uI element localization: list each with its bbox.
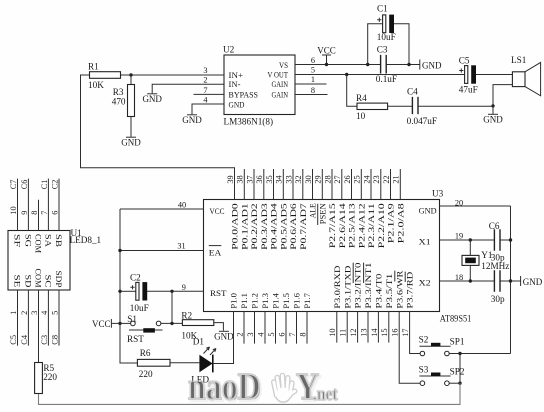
svg-text:P3.6/WR: P3.6/WR bbox=[394, 270, 404, 308]
svg-text:U3: U3 bbox=[432, 188, 444, 198]
wire U2 BYPASS stub (pin7) bbox=[194, 93, 225, 95]
svg-text:VCC: VCC bbox=[317, 46, 336, 56]
wire C2 to U3 pin9 RST bbox=[147, 290, 204, 292]
svg-text:SD: SD bbox=[23, 275, 33, 288]
svg-text:P1.0: P1.0 bbox=[229, 293, 239, 309]
svg-text:15: 15 bbox=[380, 329, 389, 337]
wire C5 to speaker bbox=[476, 74, 512, 76]
wire U3 pin17 to S2 bbox=[410, 312, 421, 354]
svg-text:GND: GND bbox=[142, 94, 162, 104]
svg-text:P2.6/A14: P2.6/A14 bbox=[337, 202, 347, 248]
node C1 right junction bbox=[407, 63, 410, 66]
svg-text:SC: SC bbox=[43, 275, 53, 288]
svg-text:9: 9 bbox=[182, 283, 186, 292]
svg-text:32: 32 bbox=[294, 175, 303, 183]
op-amp U2 LM386 box bbox=[224, 55, 295, 115]
svg-text:P1.2: P1.2 bbox=[250, 293, 260, 309]
wire R2 to ground bbox=[214, 323, 224, 331]
svg-text:C1: C1 bbox=[40, 180, 49, 190]
svg-text:GND: GND bbox=[182, 115, 202, 125]
wire U3 top pin 24 bbox=[370, 169, 372, 200]
svg-text:COM: COM bbox=[33, 234, 43, 253]
wire: input net from R1 left down and across to U3 pin39 bbox=[81, 75, 235, 200]
svg-text:RST: RST bbox=[127, 334, 144, 344]
svg-text:34: 34 bbox=[275, 174, 284, 183]
svg-text:SB: SB bbox=[54, 234, 64, 247]
wire U3 pin19 X1 bbox=[440, 239, 495, 241]
ground flag at X2 bbox=[521, 276, 543, 287]
svg-text:SDP: SDP bbox=[54, 271, 64, 288]
wire U1 bottom pin 3 (COM) to R5 bbox=[38, 290, 40, 363]
svg-text:1: 1 bbox=[9, 311, 18, 315]
svg-text:2: 2 bbox=[203, 76, 207, 85]
capacitor C1 plates bbox=[377, 15, 394, 33]
svg-text:26: 26 bbox=[343, 175, 352, 183]
svg-text:V OUT: V OUT bbox=[268, 70, 289, 80]
svg-text:C8: C8 bbox=[50, 335, 59, 345]
svg-text:C5: C5 bbox=[459, 55, 470, 65]
svg-text:P3.3/INT1: P3.3/INT1 bbox=[363, 263, 373, 309]
wire U3 top pin 34 bbox=[282, 169, 284, 200]
svg-text:VS: VS bbox=[279, 60, 288, 70]
svg-text:LED8_1: LED8_1 bbox=[70, 235, 102, 245]
svg-text:SA: SA bbox=[43, 234, 53, 248]
svg-text:GND: GND bbox=[422, 61, 442, 71]
svg-text:P3.1/TXD: P3.1/TXD bbox=[342, 266, 352, 309]
power VCC flag at S1 bbox=[92, 319, 120, 329]
S3 left terminal bbox=[420, 381, 425, 386]
svg-text:C7: C7 bbox=[9, 180, 18, 190]
svg-text:17: 17 bbox=[401, 329, 410, 337]
svg-text:10K: 10K bbox=[88, 80, 104, 90]
svg-text:P3.2/INT0: P3.2/INT0 bbox=[353, 263, 363, 309]
svg-text:BYPASS: BYPASS bbox=[229, 90, 259, 100]
resistor R2 body bbox=[182, 320, 213, 326]
svg-text:7: 7 bbox=[203, 86, 207, 95]
svg-text:23: 23 bbox=[372, 175, 381, 183]
svg-text:3: 3 bbox=[246, 332, 255, 336]
svg-text:3: 3 bbox=[30, 311, 39, 315]
microcontroller U3 AT89S51 box bbox=[204, 200, 440, 312]
node speaker/C4 ground junction bbox=[491, 104, 494, 107]
wire U3 top pin 30 bbox=[312, 169, 314, 200]
svg-text:R6: R6 bbox=[140, 348, 151, 358]
ground at U2 pin4 bbox=[182, 115, 202, 125]
node SP1 bbox=[458, 352, 461, 355]
svg-text:24: 24 bbox=[362, 174, 371, 183]
node VCC tap on VS rail bbox=[325, 63, 328, 66]
svg-text:38: 38 bbox=[236, 175, 245, 183]
wire V OUT down to R4 bbox=[347, 75, 357, 107]
wire R6 to LED bbox=[170, 362, 199, 364]
svg-text:P0.1/AD1: P0.1/AD1 bbox=[239, 203, 249, 250]
svg-text:P0.3/AD3: P0.3/AD3 bbox=[259, 203, 269, 250]
svg-text:P3.4/T0: P3.4/T0 bbox=[374, 274, 384, 309]
wire U3 bottom pin 11 bbox=[346, 312, 348, 343]
svg-text:P1.7: P1.7 bbox=[302, 292, 312, 308]
svg-text:470: 470 bbox=[112, 96, 126, 106]
node S1/R2 junction bbox=[170, 322, 173, 325]
svg-text:5: 5 bbox=[50, 311, 59, 315]
svg-text:19: 19 bbox=[455, 232, 463, 241]
svg-text:30p: 30p bbox=[491, 294, 505, 304]
wire U3 bottom pin 10 bbox=[336, 312, 338, 343]
svg-text:C6: C6 bbox=[489, 221, 500, 231]
svg-text:9: 9 bbox=[20, 211, 29, 215]
ground below R3 bbox=[121, 137, 141, 147]
wire LED cathode to U3 pin1 bbox=[213, 312, 234, 364]
svg-text:8: 8 bbox=[30, 211, 39, 215]
svg-text:P2.4/A12: P2.4/A12 bbox=[356, 203, 366, 248]
svg-text:30: 30 bbox=[304, 175, 313, 183]
svg-text:GND: GND bbox=[483, 115, 503, 125]
svg-text:22: 22 bbox=[382, 175, 391, 183]
svg-text:C4: C4 bbox=[20, 334, 29, 345]
svg-text:12: 12 bbox=[349, 329, 358, 337]
svg-text:14: 14 bbox=[370, 328, 379, 337]
svg-text:18: 18 bbox=[455, 273, 463, 282]
svg-text:P3.0/RXD: P3.0/RXD bbox=[332, 266, 342, 309]
svg-text:SP2: SP2 bbox=[450, 367, 465, 377]
svg-text:P2.7/A15: P2.7/A15 bbox=[327, 203, 337, 248]
svg-text:6: 6 bbox=[311, 56, 315, 65]
svg-text:220: 220 bbox=[43, 372, 57, 382]
wire U3 bottom pin 6 bbox=[285, 312, 287, 344]
S2 left terminal bbox=[420, 351, 425, 356]
svg-text:R4: R4 bbox=[356, 93, 367, 103]
wire U1 top pin 9 net C6 bbox=[27, 179, 29, 231]
svg-text:GAIN: GAIN bbox=[272, 79, 289, 89]
wire U3 bottom pin 8 bbox=[306, 312, 308, 344]
resistor R6 body bbox=[137, 359, 170, 366]
svg-text:5: 5 bbox=[267, 332, 276, 336]
svg-text:RST: RST bbox=[210, 288, 227, 298]
svg-text:R1: R1 bbox=[88, 62, 99, 72]
node junction R1/R3 bbox=[129, 73, 132, 76]
wire U3 pin18 X2 bbox=[440, 280, 495, 282]
svg-text:47uF: 47uF bbox=[459, 84, 478, 94]
wire to ground bbox=[492, 106, 494, 114]
node X2 crystal junction bbox=[469, 279, 472, 282]
wire U3 top pin 35 bbox=[273, 169, 275, 200]
wire X1 to crystal bbox=[469, 240, 471, 255]
wire C3 right to ground flag bbox=[386, 64, 420, 66]
node VCC rail at S1 bbox=[118, 322, 121, 325]
wire U1 top pin 8 (COM) bbox=[38, 200, 40, 231]
wire U1 top pin 7 net C1 bbox=[47, 179, 49, 231]
svg-text:21: 21 bbox=[392, 175, 401, 183]
svg-text:1: 1 bbox=[311, 75, 315, 84]
wire bottom return from SP2 to R5 bbox=[39, 383, 461, 404]
wire U3 top pin 38 bbox=[243, 169, 245, 200]
wire U3 pin40 VCC bbox=[120, 208, 204, 210]
svg-text:C5: C5 bbox=[9, 335, 18, 345]
svg-text:37: 37 bbox=[245, 175, 254, 183]
svg-text:GND: GND bbox=[121, 138, 141, 148]
svg-text:C4: C4 bbox=[407, 86, 418, 96]
wire U3 top pin 21 bbox=[399, 169, 401, 200]
power VCC at U2 pin 6 bbox=[317, 46, 336, 65]
svg-text:33: 33 bbox=[284, 175, 293, 183]
wire U3 bottom pin 15 bbox=[388, 312, 390, 343]
wire C6 to ground rail bbox=[500, 239, 510, 241]
svg-text:0.047uF: 0.047uF bbox=[407, 116, 437, 126]
S2 right terminal bbox=[445, 351, 450, 356]
wire speaker return bbox=[493, 85, 512, 106]
wire U3 top pin 37 bbox=[253, 169, 255, 200]
svg-text:P2.3/A11: P2.3/A11 bbox=[366, 203, 376, 248]
svg-text:S2: S2 bbox=[419, 334, 429, 344]
wire VCC rail down to R6 bbox=[120, 209, 137, 363]
svg-text:.net: .net bbox=[313, 384, 338, 405]
svg-text:SF: SF bbox=[12, 234, 22, 247]
wire VCC to S1 bbox=[120, 322, 131, 324]
capacitor C6 plates bbox=[494, 229, 500, 251]
wire U3 top pin 32 bbox=[302, 169, 304, 200]
wire U3 top pin 23 bbox=[380, 169, 382, 200]
svg-text:P0.7/AD7: P0.7/AD7 bbox=[298, 202, 308, 249]
wire VCC rail to C2 bbox=[120, 290, 136, 292]
watermark (decorative) bbox=[188, 365, 338, 409]
svg-text:EA: EA bbox=[209, 248, 222, 258]
svg-text:2: 2 bbox=[235, 332, 244, 336]
svg-text:P0.6/AD6: P0.6/AD6 bbox=[288, 202, 298, 249]
wire U2 GND pin4 to ground bbox=[192, 104, 224, 114]
svg-text:naoD: naoD bbox=[188, 365, 261, 407]
svg-text:GND: GND bbox=[419, 206, 437, 216]
svg-text:R3: R3 bbox=[113, 87, 124, 97]
svg-text:10uF: 10uF bbox=[130, 303, 149, 313]
wire U3 top pin 28 bbox=[331, 169, 333, 200]
svg-text:VCC: VCC bbox=[210, 206, 225, 216]
wire U3 bottom pin 2 bbox=[243, 312, 245, 344]
svg-text:P2.0/A8: P2.0/A8 bbox=[395, 203, 405, 243]
wire U3 top pin 36 bbox=[263, 169, 265, 200]
S1 right terminal bbox=[156, 321, 161, 326]
svg-text:U2: U2 bbox=[223, 45, 235, 55]
svg-text:P1.4: P1.4 bbox=[271, 292, 281, 308]
svg-text:P0.0/AD0: P0.0/AD0 bbox=[230, 203, 240, 250]
svg-text:20: 20 bbox=[455, 198, 463, 207]
wire U3 top pin 22 bbox=[390, 169, 392, 200]
wire U3 pin31 EA bbox=[120, 250, 204, 252]
svg-text:PSEN: PSEN bbox=[317, 203, 327, 225]
wire U3 bottom pin 14 bbox=[377, 312, 379, 343]
svg-text:C2: C2 bbox=[50, 180, 59, 190]
wire U3 top pin 29 bbox=[321, 169, 323, 200]
svg-text:3: 3 bbox=[203, 66, 207, 75]
svg-text:P1.5: P1.5 bbox=[281, 293, 291, 309]
svg-text:10: 10 bbox=[356, 111, 366, 121]
wire U3 bottom pin 12 bbox=[357, 312, 359, 343]
svg-text:31: 31 bbox=[177, 242, 185, 251]
svg-text:10: 10 bbox=[9, 206, 18, 214]
wire S1 to R2 bbox=[161, 322, 183, 324]
svg-text:16: 16 bbox=[391, 329, 400, 337]
svg-text:10: 10 bbox=[328, 329, 337, 337]
svg-text:13: 13 bbox=[359, 329, 368, 337]
svg-text:0.1uF: 0.1uF bbox=[376, 74, 397, 84]
wire U3 top pin 25 bbox=[360, 169, 362, 200]
wire to C1 + bbox=[368, 24, 383, 65]
ground flag right of C3 bbox=[420, 60, 442, 71]
ground below speaker bbox=[483, 114, 503, 124]
svg-text:P1.1: P1.1 bbox=[239, 293, 249, 309]
svg-text:P2.2/A10: P2.2/A10 bbox=[376, 203, 386, 248]
wire U3 top pin 33 bbox=[292, 169, 294, 200]
svg-text:36: 36 bbox=[255, 175, 264, 183]
svg-text:C1: C1 bbox=[377, 4, 388, 14]
svg-text:35: 35 bbox=[265, 175, 274, 183]
resistor R5 body bbox=[35, 363, 43, 394]
overlines INT0 INT1 WR RD bbox=[353, 263, 405, 283]
wire R1 to U2 IN+ (pin3) bbox=[121, 74, 225, 76]
svg-text:GND: GND bbox=[214, 332, 234, 342]
wire U1 bottom pin 2 net C4 bbox=[27, 290, 29, 346]
node on ground rail at X2 bbox=[509, 279, 512, 282]
svg-text:P3.5/T1: P3.5/T1 bbox=[384, 274, 394, 309]
wire GAIN pin1 stub bbox=[295, 83, 327, 85]
svg-text:LM386N1(8): LM386N1(8) bbox=[224, 117, 274, 127]
wire R3 to ground bbox=[130, 117, 132, 137]
PSEN overline bbox=[317, 204, 319, 225]
wire U3 top pin 27 bbox=[341, 169, 343, 200]
svg-text:COM: COM bbox=[33, 269, 43, 288]
resistor R1 body bbox=[90, 72, 121, 79]
svg-text:C3: C3 bbox=[40, 335, 49, 345]
svg-text:28: 28 bbox=[323, 175, 332, 183]
wire R3 top lead bbox=[130, 75, 132, 85]
connector U1 LED8_1 box bbox=[8, 231, 70, 291]
S3 right terminal bbox=[445, 381, 450, 386]
svg-text:C6: C6 bbox=[20, 180, 29, 190]
svg-text:25: 25 bbox=[353, 175, 362, 183]
S1 left terminal bbox=[131, 321, 136, 326]
wire U3 bottom pin 3 bbox=[254, 312, 256, 344]
node RST junction bbox=[170, 290, 173, 293]
svg-text:7: 7 bbox=[40, 211, 49, 215]
wire U3 top pin 26 bbox=[351, 169, 353, 200]
node V OUT to R4 branch bbox=[345, 73, 348, 76]
svg-text:P2.1/A9: P2.1/A9 bbox=[386, 203, 396, 243]
wire U2 IN- (pin2) to ground bbox=[152, 84, 224, 93]
svg-text:Y1: Y1 bbox=[481, 250, 493, 260]
svg-text:P1.6: P1.6 bbox=[292, 292, 302, 308]
node EA on VCC rail bbox=[118, 249, 121, 252]
svg-text:P1.3: P1.3 bbox=[260, 293, 270, 309]
wire GAIN pin8 stub bbox=[295, 94, 328, 96]
wire U1 top pin 10 net C7 bbox=[17, 179, 19, 231]
wire V OUT pin5 to C5 bbox=[295, 74, 465, 76]
svg-text:P0.5/AD5: P0.5/AD5 bbox=[278, 203, 288, 250]
svg-text:C2: C2 bbox=[130, 272, 141, 282]
svg-text:11: 11 bbox=[339, 329, 348, 337]
svg-text:2: 2 bbox=[20, 311, 29, 315]
svg-text:8: 8 bbox=[311, 86, 315, 95]
svg-text:P3.7/RD: P3.7/RD bbox=[405, 272, 415, 309]
svg-text:39: 39 bbox=[226, 175, 235, 183]
wire crystal to X2 bbox=[469, 265, 471, 281]
wire SP1 to SP2 link bbox=[459, 354, 461, 384]
svg-text:SP1: SP1 bbox=[450, 336, 465, 346]
wire U3 top pin 39 bbox=[234, 169, 236, 200]
svg-text:29: 29 bbox=[314, 175, 323, 183]
svg-text:P2.5/A13: P2.5/A13 bbox=[347, 203, 357, 248]
svg-text:AT89S51: AT89S51 bbox=[440, 313, 472, 323]
svg-text:C3: C3 bbox=[377, 45, 388, 55]
resistor R4 body bbox=[357, 103, 388, 109]
node X1 crystal junction bbox=[469, 238, 472, 241]
wire U1 bottom pin 5 net C8 bbox=[58, 290, 60, 346]
wire U3 pin20 GND bbox=[440, 205, 511, 207]
node C2 on VCC rail bbox=[118, 290, 121, 293]
node C6 on ground rail bbox=[509, 238, 512, 241]
wire C7 to ground flag bbox=[500, 280, 520, 282]
svg-text:220: 220 bbox=[139, 369, 153, 379]
wire S2 to ground rail bbox=[449, 353, 510, 355]
wire R4 to C4 bbox=[388, 105, 413, 107]
wire U1 bottom pin 1 net C5 bbox=[17, 290, 19, 346]
capacitor C2 plates bbox=[130, 282, 147, 300]
ground at R2 bbox=[214, 331, 234, 341]
svg-text:X2: X2 bbox=[419, 277, 431, 287]
wire C4 to speaker ground node bbox=[418, 105, 493, 107]
wire RST down to switch/R2 bbox=[171, 291, 173, 323]
capacitor C5 47uF bbox=[459, 65, 476, 83]
svg-text:GAIN: GAIN bbox=[272, 90, 289, 100]
wire S3 to node SP2 bbox=[449, 382, 460, 384]
svg-text:SE: SE bbox=[12, 275, 22, 288]
svg-text:GND: GND bbox=[523, 277, 543, 287]
wire U3 pin16 to S3 bbox=[399, 312, 420, 384]
svg-text:ALE: ALE bbox=[308, 203, 318, 218]
wire U3 bottom pin 4 bbox=[264, 312, 266, 344]
svg-text:40: 40 bbox=[178, 200, 186, 209]
svg-text:LS1: LS1 bbox=[511, 55, 527, 65]
wire U3 bottom pin 13 bbox=[367, 312, 369, 343]
wire C1 - down bbox=[394, 24, 409, 65]
node C1 left junction bbox=[366, 63, 369, 66]
svg-text:8: 8 bbox=[298, 332, 307, 336]
wire U1 top pin 6 net C2 bbox=[58, 179, 60, 231]
svg-text:X1: X1 bbox=[419, 236, 431, 246]
svg-text:IN-: IN- bbox=[229, 79, 241, 89]
svg-text:P0.4/AD4: P0.4/AD4 bbox=[269, 202, 279, 249]
capacitor C4 plates bbox=[412, 97, 418, 114]
resistor R3 body bbox=[128, 85, 135, 117]
svg-text:S3: S3 bbox=[419, 365, 429, 375]
svg-text:R2: R2 bbox=[181, 310, 192, 320]
S1 actuator bbox=[129, 329, 163, 331]
capacitor C3 plates bbox=[381, 55, 387, 74]
svg-text:D1: D1 bbox=[193, 336, 205, 346]
svg-text:SG: SG bbox=[23, 234, 33, 247]
LED D1 bbox=[199, 347, 216, 372]
svg-text:5: 5 bbox=[311, 66, 315, 75]
speaker LS1 bbox=[512, 62, 540, 95]
wire ground rail right side bbox=[510, 206, 512, 354]
wire U3 bottom pin 5 bbox=[275, 312, 277, 344]
svg-text:VCC: VCC bbox=[92, 319, 111, 329]
wire VS pin6 to C3 left bbox=[295, 64, 381, 66]
svg-text:27: 27 bbox=[333, 175, 342, 183]
svg-text:GND: GND bbox=[229, 99, 245, 109]
svg-text:P0.2/AD2: P0.2/AD2 bbox=[249, 203, 259, 250]
node SP2 bbox=[458, 382, 461, 385]
capacitor 30p plates bbox=[494, 270, 500, 292]
svg-text:12MHz: 12MHz bbox=[481, 261, 509, 271]
svg-text:7: 7 bbox=[288, 332, 297, 336]
